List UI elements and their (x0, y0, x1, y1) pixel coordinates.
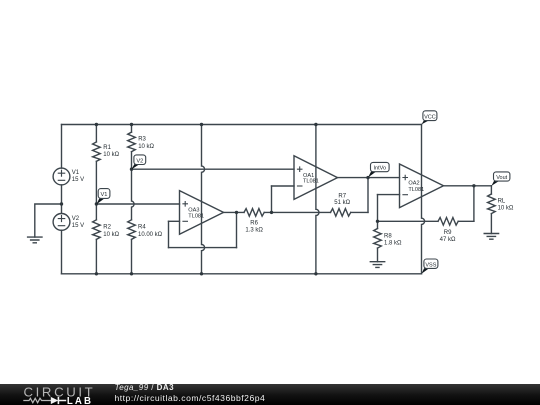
junction OA2 output (472, 184, 475, 187)
wire OA3 feedback bottom (169, 247, 237, 249)
op-amp OA3 (180, 191, 224, 235)
resistor R6 (244, 209, 264, 217)
resistor R9 (438, 218, 458, 226)
wire R7 up to OA1 output (367, 178, 369, 213)
wire OA2 minus input stub (378, 194, 400, 196)
ground (left, sources) (28, 237, 42, 243)
wire junction to ground stub (35, 204, 62, 237)
wire OA3 feedback left vertical (168, 221, 170, 247)
resistor R2 (93, 220, 101, 240)
svg-text:LAB: LAB (67, 396, 93, 405)
wire top rail VCC (62, 124, 422, 126)
wire OA3 output to R6 (224, 211, 245, 213)
svg-text:R8: R8 (384, 233, 392, 239)
node tag VCC (422, 111, 437, 125)
svg-text:51 kΩ: 51 kΩ (334, 200, 350, 206)
resistor R7 (331, 209, 351, 217)
wire OA2 power line with hop (422, 125, 425, 274)
wire R1 column top lead (95, 125, 97, 142)
junction R8 node (376, 220, 379, 223)
wire node V1 to R2 (95, 204, 97, 220)
wire OA2 output to Vout (444, 185, 492, 187)
svg-text:47 kΩ: 47 kΩ (440, 237, 456, 243)
op-amp OA2 minus sign (402, 194, 408, 196)
ground (under RL) (484, 234, 498, 240)
svg-text:OA2: OA2 (408, 181, 419, 187)
svg-text:R4: R4 (138, 225, 146, 231)
wire OA1 minus input stub (272, 185, 295, 187)
op-amp OA1 minus sign (297, 185, 303, 187)
svg-text:Tega_99 / DA3: Tega_99 / DA3 (115, 383, 174, 392)
svg-text:10 kΩ: 10 kΩ (103, 152, 119, 158)
junction OA3 output (235, 211, 238, 214)
svg-text:R3: R3 (138, 136, 146, 142)
wire R3 to node V2 (131, 152, 133, 170)
junction node V2 (130, 168, 133, 171)
junction R6 right (270, 211, 273, 214)
svg-text:10 kΩ: 10 kΩ (103, 232, 119, 238)
wire R3 column top lead (131, 125, 133, 133)
resistor R4 (128, 220, 136, 240)
op-amp OA2 plus sign (402, 175, 408, 181)
svg-text:TL081: TL081 (188, 213, 204, 219)
wire node V1 to OA3 plus input (96, 203, 179, 205)
node tag Vout (491, 172, 510, 186)
wire R8 to ground (377, 248, 379, 262)
svg-text:http://circuitlab.com/c5f436bb: http://circuitlab.com/c5f436bbf26p4 (115, 393, 266, 403)
wire R4 to bottom rail (131, 239, 133, 273)
junction bottom rail at OA1 power (314, 272, 317, 275)
voltage source V1 (53, 168, 70, 185)
logo resistor squiggle (23, 398, 51, 402)
svg-text:IntVo: IntVo (374, 166, 387, 172)
wire node V2 to OA1 plus input (132, 168, 295, 170)
wire OA1 minus feedback vertical (271, 186, 273, 212)
svg-text:V2: V2 (72, 216, 80, 222)
svg-text:10 kΩ: 10 kΩ (138, 144, 154, 150)
node tag V2 (132, 155, 146, 170)
wire bottom rail VSS (62, 273, 422, 275)
svg-text:VSS: VSS (425, 262, 436, 268)
wire V2 to bottom rail (61, 230, 63, 273)
svg-text:R2: R2 (103, 225, 111, 231)
junction node V1 (95, 202, 98, 205)
resistor R1 (93, 142, 101, 161)
junction bottom rail at R4 (130, 272, 133, 275)
op-amp OA1 (294, 156, 338, 200)
wire OA3 feedback up to output (236, 212, 238, 247)
svg-text:10 kΩ: 10 kΩ (498, 206, 514, 212)
svg-text:V1: V1 (101, 192, 108, 198)
node tag IntVo (368, 162, 389, 177)
svg-text:RL: RL (498, 199, 506, 205)
junction sources midpoint (60, 202, 63, 205)
logo diode (51, 397, 58, 404)
junction bottom rail at OA3 power (200, 272, 203, 275)
op-amp OA2 (400, 164, 444, 208)
wire R7 right end (351, 211, 368, 213)
resistor R8 (374, 229, 382, 249)
wire left rail upper (top rail to V1) (61, 125, 63, 169)
svg-text:15 V: 15 V (72, 223, 84, 229)
junction top rail at R1 (95, 123, 98, 126)
resistor R3 (128, 132, 136, 152)
junction OA1 output IntVo (366, 176, 369, 179)
wire OA2 minus down to R8 node (377, 195, 379, 222)
node tag V1 (96, 189, 109, 205)
junction top rail at OA3 power (200, 123, 203, 126)
svg-text:R9: R9 (444, 230, 452, 236)
wire R8 node to R9 (378, 220, 439, 222)
wire OA3 power line with hops (202, 125, 205, 274)
svg-text:15 V: 15 V (72, 177, 84, 183)
wire Vout down to RL (490, 186, 492, 194)
svg-text:R1: R1 (103, 145, 111, 151)
wire R6 right to R7 left (264, 211, 330, 213)
svg-text:1.8 kΩ: 1.8 kΩ (384, 240, 402, 246)
wire R9 up to OA2 output (473, 186, 475, 222)
wire node V2 down with hop over V1 wire (132, 169, 135, 220)
svg-text:1.3 kΩ: 1.3 kΩ (245, 228, 263, 234)
op-amp OA1 plus sign (297, 166, 303, 172)
wire RL to ground (490, 214, 492, 234)
svg-text:10.00 kΩ: 10.00 kΩ (138, 232, 163, 238)
svg-text:TL081: TL081 (408, 187, 424, 193)
wire R8 top lead (377, 221, 379, 228)
junction top rail at OA1 power (314, 123, 317, 126)
wire OA1 power line with hop (316, 125, 319, 274)
ground (under R8) (370, 262, 384, 268)
op-amp OA3 plus sign (182, 201, 188, 207)
wire OA3 minus input stub (169, 220, 180, 222)
wire V1 to junction (61, 185, 63, 214)
wire R9 right (458, 220, 474, 222)
voltage source V2 (53, 214, 70, 231)
svg-text:V2: V2 (136, 158, 143, 164)
svg-text:VCC: VCC (424, 114, 436, 120)
svg-text:R7: R7 (338, 194, 346, 200)
svg-text:Vout: Vout (496, 175, 507, 181)
svg-text:V1: V1 (72, 170, 80, 176)
footer bar (0, 384, 540, 405)
junction top rail at R3 (130, 123, 133, 126)
junction bottom rail at R2 (95, 272, 98, 275)
svg-text:R6: R6 (250, 220, 258, 226)
resistor RL (488, 194, 496, 214)
op-amp OA3 minus sign (182, 220, 188, 222)
wire R1 to node V1 (95, 161, 97, 204)
node tag VSS (422, 259, 438, 274)
wire R2 to bottom rail (95, 239, 97, 273)
wire OA1 output to OA2 plus input (338, 177, 400, 179)
svg-text:TL081: TL081 (303, 179, 319, 185)
